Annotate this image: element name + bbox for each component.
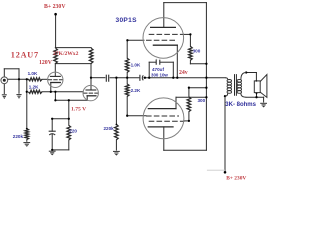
svg-text:x2: x2 [73,51,79,57]
svg-text:220: 220 [69,128,77,133]
svg-text:27K/2W: 27K/2W [53,51,73,57]
svg-text:1.0K: 1.0K [131,63,141,68]
svg-text:30P1S: 30P1S [116,17,138,24]
svg-text:2.2K: 2.2K [131,88,141,93]
svg-text:1.0K: 1.0K [28,71,38,76]
svg-text:220k: 220k [13,134,24,139]
svg-text:300 10w: 300 10w [151,72,168,77]
svg-text:1.2K: 1.2K [29,84,39,89]
svg-text:300: 300 [198,98,206,103]
svg-text:1.75 V: 1.75 V [71,107,86,113]
svg-text:3K- 8ohms: 3K- 8ohms [225,102,256,108]
svg-text:220k: 220k [104,126,115,131]
svg-text:B+ 230V: B+ 230V [226,176,246,182]
svg-text:24v: 24v [179,70,188,76]
svg-text:300: 300 [193,49,201,54]
svg-text:+: + [155,58,157,62]
svg-text:120V: 120V [39,60,53,66]
svg-text:B+ 230V: B+ 230V [44,4,66,10]
svg-text:12AU7: 12AU7 [11,51,39,60]
